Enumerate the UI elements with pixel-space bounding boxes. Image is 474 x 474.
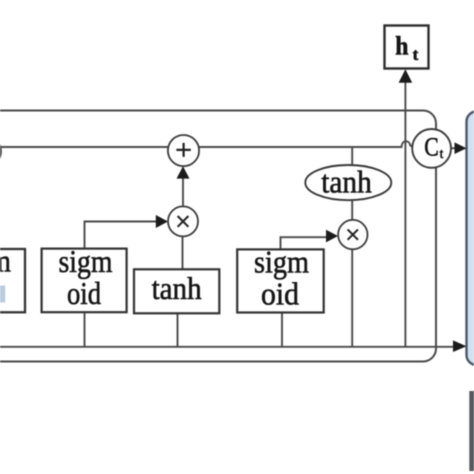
svg-text:tanh: tanh (321, 163, 372, 199)
arrowhead into h_t box (399, 69, 413, 83)
wire: h_t output tap upward (404, 83, 406, 347)
arrowhead into adder (177, 166, 190, 178)
C_t circle on cell right edge (412, 129, 451, 168)
wire: cell-state line c (left segment) (1, 146, 168, 148)
arrowhead into output multiplier (326, 230, 338, 243)
wire: sigmoid4 stub to h line (281, 312, 283, 347)
tanh box (candidate) (134, 269, 219, 313)
svg-text:C: C (424, 132, 439, 161)
wire: tanh column (c branch down through tanh ellipse and output multiplier to h line) (351, 147, 353, 347)
wire: tanh box stub to h line (177, 313, 179, 347)
output multiplier circle (338, 220, 367, 249)
sigmoid box 1 (clipped at left edge) (0, 249, 25, 312)
forget multiplier circle (clipped sliver at left edge) (0, 137, 1, 167)
candidate multiplier circle (168, 206, 198, 236)
wire: sigmoid2 output up and right into candidate multiplier (85, 222, 158, 249)
wire: sigmoid2 stub to h line (84, 312, 86, 347)
tanh ellipse (output activation) (305, 165, 391, 200)
arrowhead of C_t output (455, 142, 467, 154)
sigmoid box 2 (input gate) (42, 249, 127, 313)
svg-text:oid: oid (67, 275, 101, 311)
times glyph (178, 216, 189, 227)
wire: sigmoid4 output up and right into output multiplier (281, 237, 328, 249)
sigmoid box 4 (output gate) (237, 249, 324, 312)
arrowhead of h line into next cell (453, 340, 467, 352)
light blue fragment in clipped sigmoid box (0, 286, 5, 303)
arrowhead into candidate multiplier (156, 215, 168, 228)
plus glyph (176, 143, 190, 157)
svg-text:sigm: sigm (254, 244, 309, 280)
h_t output box (385, 26, 429, 69)
svg-text:tanh: tanh (152, 270, 202, 306)
wire: cell-state line c (right segment with hop over h_t wire) (199, 141, 413, 147)
svg-text:t: t (413, 45, 419, 64)
wire: multiplier down to tanh box (182, 236, 184, 269)
times glyph (348, 229, 358, 239)
svg-text:oid: oid (261, 275, 299, 311)
svg-text:sigm: sigm (59, 243, 113, 279)
svg-text:h: h (395, 32, 409, 61)
wire: hidden-state h line along cell bottom (0, 346, 454, 348)
LSTM cell body (rounded rectangle, clipped at left) (0, 111, 436, 362)
vertical gray bar below next cell (clipped input connector) (469, 391, 474, 471)
svg-text:t: t (440, 146, 444, 161)
adder circle (168, 135, 199, 166)
wire: candidate multiplier output up to adder (182, 172, 184, 206)
next LSTM cell (light blue, clipped at right edge) (467, 112, 474, 366)
wire: C_t output into next cell (451, 147, 456, 149)
svg-text:m: m (0, 243, 11, 279)
